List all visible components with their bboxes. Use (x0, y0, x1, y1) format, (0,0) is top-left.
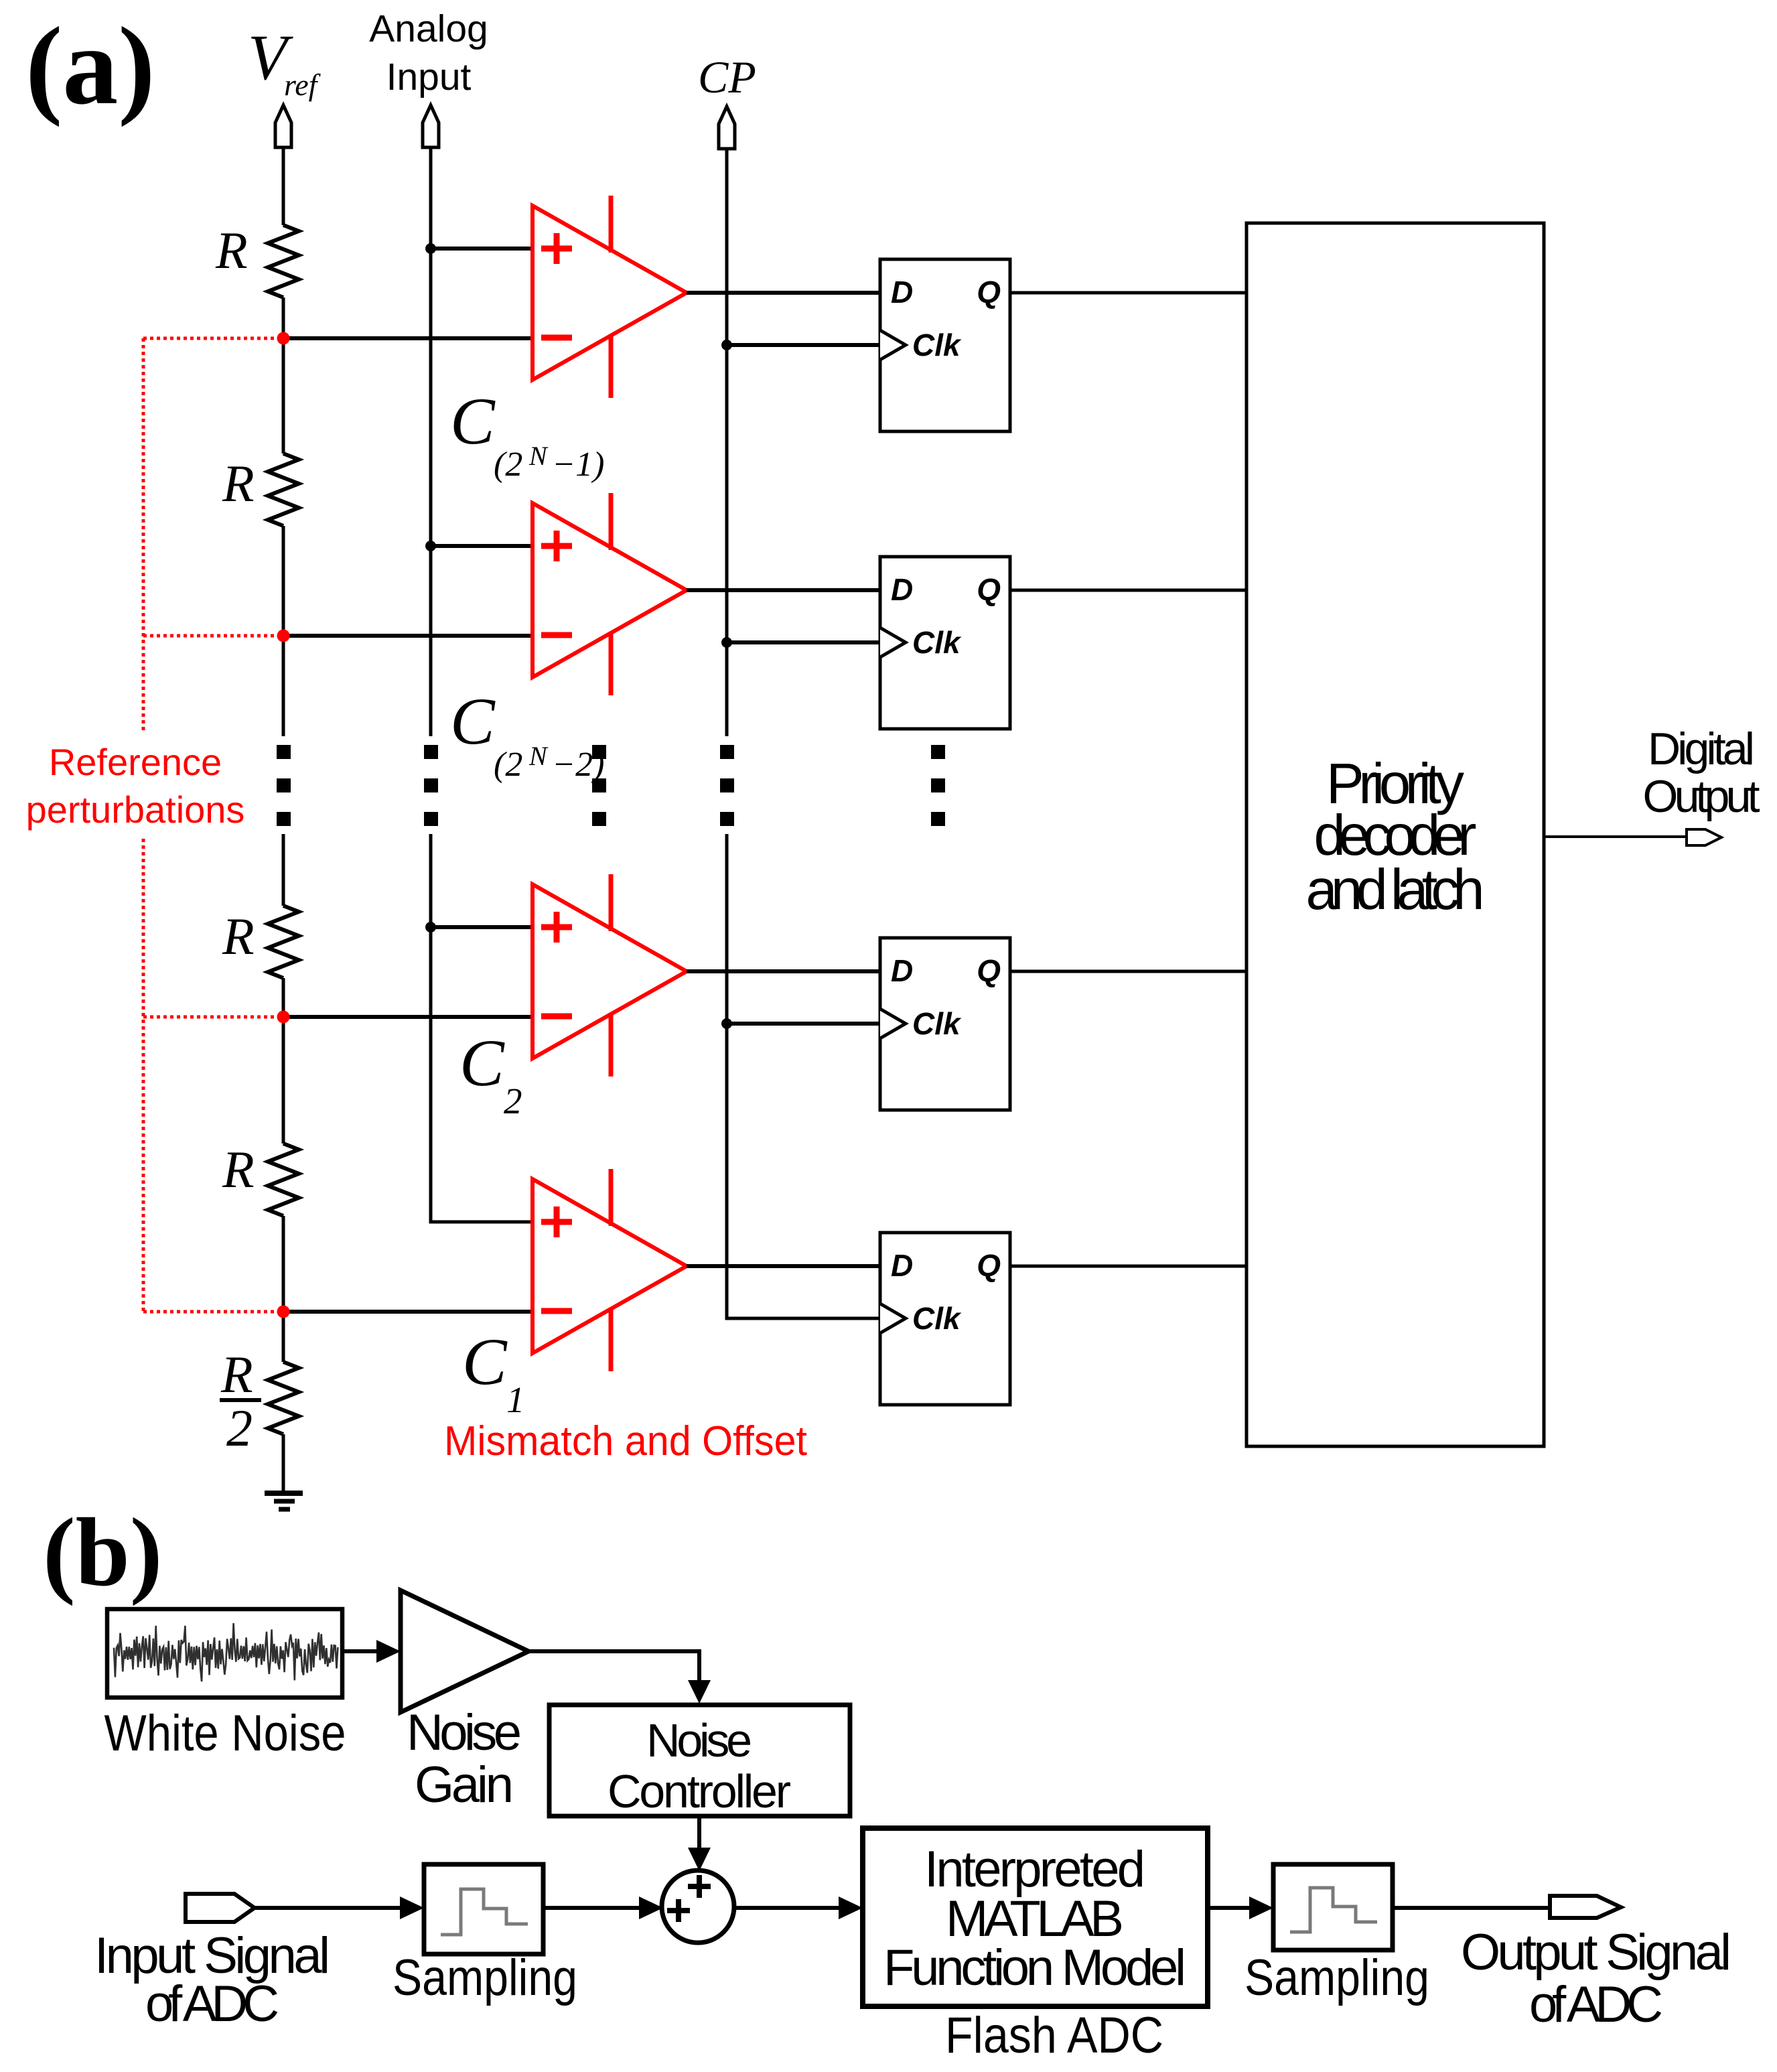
node ladder tap1 (red) (277, 332, 290, 345)
svg-text:Q: Q (977, 572, 1001, 607)
label Noise Gain (407, 1704, 522, 1813)
wire comparator4 output to D (687, 1264, 880, 1268)
red dashed horizontal row4 (143, 1310, 275, 1314)
D flip-flop 3 (880, 938, 1010, 1110)
noise controller box (549, 1705, 850, 1816)
wire comparator1 output to D (687, 291, 880, 295)
svg-text:Noise: Noise (407, 1704, 522, 1761)
label C2 (459, 1026, 522, 1121)
resistor R3 (268, 906, 299, 978)
svg-text:2: 2 (504, 1081, 522, 1121)
svg-text:Clk: Clk (912, 1301, 962, 1336)
wire Q3 to decoder (1010, 970, 1247, 973)
port Digital Output (1687, 829, 1721, 845)
red dashed horizontal row3 (143, 1016, 275, 1019)
svg-text:Sampling: Sampling (393, 1949, 577, 2006)
svg-text:R: R (222, 454, 255, 512)
label Interpreted MATLAB Function Model (883, 1841, 1186, 1996)
svg-text:CP: CP (698, 52, 756, 102)
port Analog Input (423, 105, 439, 147)
white noise waveform (114, 1623, 338, 1681)
svg-text:Reference: Reference (49, 741, 222, 783)
wire ladder R2 down to dots (282, 526, 285, 736)
wire clk1 from CP (727, 343, 880, 347)
svg-text:Analog: Analog (369, 7, 488, 50)
label Reference perturbations (26, 741, 245, 831)
svg-text:D: D (891, 1248, 913, 1283)
wire noise controller to summer (688, 1816, 711, 1871)
red dashed horizontal row1 (143, 337, 275, 340)
white noise source box (107, 1609, 342, 1698)
D flip-flop 1 (880, 259, 1010, 431)
priority decoder and latch box (1247, 223, 1544, 1446)
svg-text:D: D (891, 953, 913, 988)
wire comparator3 +input (431, 925, 532, 929)
node analog row3 (425, 922, 436, 933)
comparator C(2^N-2) (532, 493, 687, 695)
svg-text:Clk: Clk (912, 1006, 962, 1041)
svg-text:(b): (b) (43, 1498, 162, 1606)
svg-text:D: D (891, 572, 913, 607)
wire comparator4 -input (283, 1310, 532, 1314)
label Vref (248, 21, 322, 102)
svg-text:Interpreted: Interpreted (924, 1841, 1145, 1898)
svg-text:Output: Output (1643, 771, 1760, 822)
D flip-flop 4 (880, 1233, 1010, 1405)
svg-text:R: R (215, 221, 248, 279)
wire comparator3 -input (283, 1015, 532, 1019)
wire comparator2 output to D (687, 588, 880, 592)
sampling block 1 (424, 1864, 543, 1954)
wire Vref ladder top (282, 147, 285, 225)
port CP (719, 107, 735, 149)
wire ladder dots to R3 (282, 834, 285, 906)
sampling block 2 (1273, 1864, 1393, 1950)
ground (265, 1493, 303, 1509)
svg-text:C: C (459, 1026, 505, 1100)
svg-text:ref: ref (284, 68, 322, 102)
wire white noise to gain (342, 1640, 401, 1663)
svg-text:Controller: Controller (608, 1765, 791, 1817)
svg-text:Clk: Clk (912, 328, 962, 362)
wire clk2 from CP (727, 640, 880, 644)
wire clk3 from CP (727, 1022, 880, 1026)
wire summer to MATLAB model (733, 1896, 863, 1919)
wire CP vertical upper (725, 149, 729, 736)
svg-text:Q: Q (977, 275, 1001, 309)
wire input port to sampling1 (255, 1896, 424, 1919)
wire Q1 to decoder (1010, 291, 1247, 295)
svg-text:of ADC: of ADC (1529, 1976, 1663, 2033)
svg-text:Gain: Gain (415, 1756, 514, 1813)
red dashed horizontal row2 (143, 634, 275, 638)
svg-text:Input: Input (386, 56, 472, 98)
svg-text:Q: Q (977, 953, 1001, 988)
svg-text:Mismatch and Offset: Mismatch and Offset (444, 1418, 807, 1464)
comparator C2 (532, 874, 687, 1077)
svg-text:Clk: Clk (912, 625, 962, 660)
wire ladder R1 to R2 (282, 297, 285, 454)
resistor R1 (268, 225, 299, 297)
svg-text:Digital: Digital (1648, 723, 1755, 774)
wire ladder R3 to R4 (282, 978, 285, 1144)
wire comparator3 output to D (687, 969, 880, 973)
svg-text:Output Signal: Output Signal (1461, 1924, 1731, 1981)
svg-text:C: C (462, 1324, 508, 1399)
red dashed vertical (reference perturbations bracket) (142, 338, 145, 1312)
port Vref (275, 105, 291, 147)
label C1 (462, 1324, 525, 1420)
label Noise Controller (608, 1714, 791, 1817)
wire digital output (1544, 835, 1687, 838)
svg-text:Flash ADC: Flash ADC (945, 2007, 1163, 2064)
svg-text:D: D (891, 275, 913, 309)
ellipsis dots flip-flop column (931, 745, 945, 826)
resistor R4 (268, 1144, 299, 1216)
svg-text:R: R (222, 907, 255, 965)
wire ladder R5 to ground (282, 1434, 285, 1493)
node CP row1 (721, 340, 732, 350)
node CP row3 (721, 1018, 732, 1029)
ellipsis dots CP column (720, 745, 734, 826)
wire sampling1 to summer (543, 1896, 663, 1919)
svg-text:Q: Q (977, 1248, 1001, 1283)
node analog row1 (425, 243, 436, 254)
ellipsis dots comparator column (592, 745, 606, 826)
svg-text:C: C (450, 684, 496, 758)
wire comparator1 -input (283, 336, 532, 340)
port Input Signal (186, 1894, 255, 1922)
wire sampling2 to output port (1393, 1906, 1550, 1910)
label C(2^N-2) (450, 684, 604, 784)
wire MATLAB model to sampling2 (1208, 1896, 1273, 1919)
wire Q4 to decoder (1010, 1265, 1247, 1268)
svg-text:(2: (2 (494, 746, 522, 784)
gain triangle Noise Gain (401, 1590, 528, 1712)
node ladder tap2 (red) (277, 630, 290, 642)
svg-text:perturbations: perturbations (26, 788, 245, 831)
svg-text:(a): (a) (25, 4, 155, 127)
label Output Signal of ADC (1461, 1924, 1731, 2033)
wire analog input vertical lower (431, 834, 532, 1222)
svg-text:Sampling: Sampling (1245, 1949, 1429, 2006)
wire ladder R4 to R5 (282, 1216, 285, 1362)
wire comparator2 +input (431, 544, 532, 548)
node ladder tap3 (red) (277, 1011, 290, 1024)
svg-text:White Noise: White Noise (104, 1705, 346, 1762)
resistor R5 (R/2) (268, 1362, 299, 1434)
svg-text:C: C (450, 384, 496, 458)
svg-text:2: 2 (226, 1399, 253, 1457)
wire Q2 to decoder (1010, 589, 1247, 592)
label Digital Output (1643, 723, 1760, 822)
wire analog input vertical upper (429, 147, 433, 736)
node CP row2 (721, 637, 732, 648)
svg-text:and latch: and latch (1306, 858, 1485, 922)
label R/2 (220, 1345, 261, 1457)
node analog row2 (425, 541, 436, 551)
D flip-flop 2 (880, 557, 1010, 729)
wire CP vertical lower (727, 834, 880, 1318)
svg-text:Function Model: Function Model (883, 1939, 1186, 1996)
interpreted MATLAB function model box (863, 1828, 1208, 2006)
svg-text:1: 1 (506, 1379, 525, 1420)
label Analog Input (369, 7, 488, 98)
svg-text:of ADC: of ADC (145, 1976, 279, 2032)
svg-text:R: R (220, 1345, 253, 1403)
label Input Signal of ADC (94, 1927, 330, 2032)
wire comparator1 +input (431, 247, 532, 251)
port Output Signal (1550, 1896, 1621, 1918)
ellipsis dots ladder column (277, 745, 291, 826)
comparator C(2^N-1) (532, 196, 687, 398)
wire gain to noise controller (528, 1651, 711, 1704)
comparator C1 (532, 1169, 687, 1371)
node ladder tap4 (red) (277, 1306, 290, 1318)
resistor R2 (268, 454, 299, 526)
svg-text:(2: (2 (494, 445, 522, 484)
wire comparator2 -input (283, 634, 532, 638)
svg-text:−1): −1) (552, 445, 604, 484)
svg-text:Noise: Noise (646, 1714, 752, 1767)
summer (662, 1870, 734, 1943)
svg-text:N: N (528, 741, 549, 771)
svg-text:R: R (222, 1140, 255, 1198)
svg-text:N: N (528, 441, 549, 471)
ellipsis dots analog column (424, 745, 438, 826)
label C(2^N-1) (450, 384, 604, 484)
